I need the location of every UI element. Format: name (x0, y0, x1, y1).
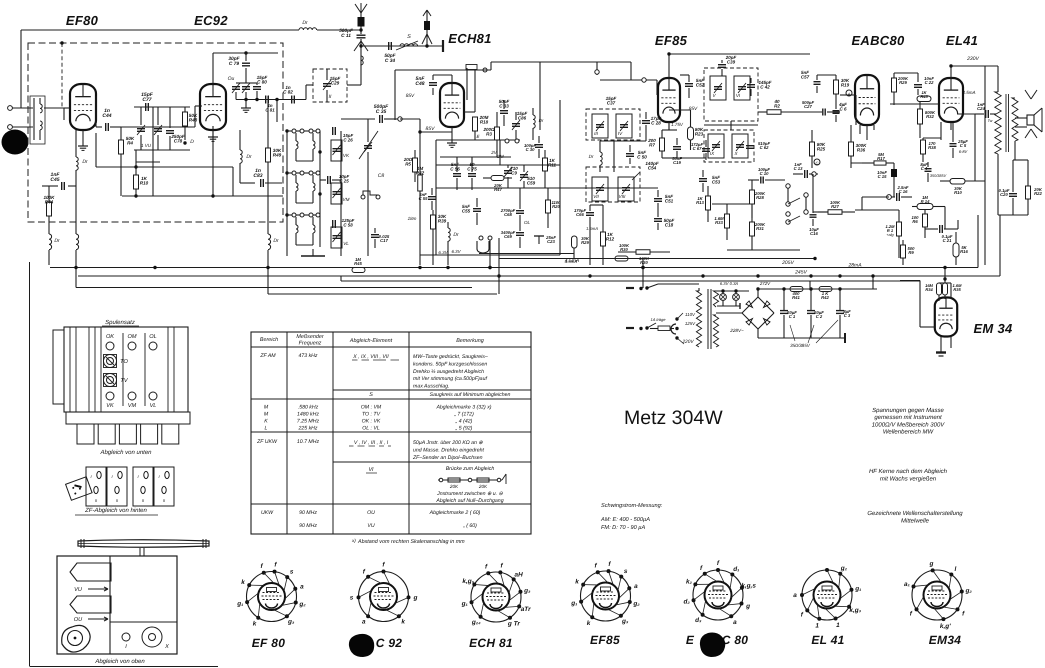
svg-text:C 28: C 28 (651, 121, 661, 126)
svg-text:C54: C54 (648, 166, 657, 171)
resistor R31 (750, 222, 755, 236)
svg-text:f: f (717, 560, 720, 567)
svg-text:IX: IX (710, 151, 715, 156)
trimmer rail bottom (236, 99, 306, 101)
svg-text:Schwingstrom-Messung:: Schwingstrom-Messung: (601, 502, 663, 509)
svg-text:R44: R44 (45, 200, 54, 205)
svg-text:C 25: C 25 (339, 178, 349, 183)
circles row top (106, 342, 114, 350)
svg-text:g₂₄: g₂₄ (471, 619, 481, 626)
svg-text:C51: C51 (665, 199, 674, 204)
trimmer rail (340, 131, 342, 256)
svg-text:R48: R48 (189, 118, 198, 123)
wire y254 (479, 253, 574, 255)
svg-text:R23: R23 (695, 132, 704, 137)
bottom border line (30, 666, 218, 668)
wire EL41 anode (950, 66, 952, 78)
resistor R17a (874, 161, 886, 165)
pinout ECH81 outer circle (471, 572, 521, 622)
svg-text:„ 4 (42): „ 4 (42) (455, 419, 473, 425)
svg-text:Jnstrument zwischen ⊕ u. ⊖: Jnstrument zwischen ⊕ u. ⊖ (436, 491, 503, 497)
svg-text:f: f (382, 562, 385, 569)
svg-text:R42: R42 (821, 295, 829, 300)
resistor R34 oval (937, 283, 942, 295)
trimmer can VK (331, 140, 342, 161)
pin g₃ of EF85 (619, 614, 623, 618)
pin k of EF80 (256, 616, 260, 620)
capacitor C78 (166, 130, 174, 132)
svg-text:R4: R4 (127, 141, 133, 146)
pin k₂ of EABC80 (693, 582, 697, 586)
svg-text:EL41: EL41 (946, 33, 978, 48)
bus vertical c (809, 281, 811, 289)
svg-text:a: a (793, 592, 797, 599)
resistor R16 (953, 243, 959, 257)
svg-text:4.5mA: 4.5mA (962, 90, 975, 95)
resistor R30 (636, 250, 650, 255)
capacitor C2 (810, 289, 812, 310)
svg-text:Abstand vom rechten Skalenan: Abstand vom rechten Skalenanschlag in mm (357, 539, 465, 545)
svg-text:VM: VM (128, 403, 137, 409)
svg-text:E: E (686, 633, 695, 647)
svg-text:R49: R49 (273, 153, 282, 158)
svg-text:MW–Taste gedrückt, Saugkreis–: MW–Taste gedrückt, Saugkreis– (413, 354, 488, 360)
resistor R11 (543, 158, 548, 171)
svg-text:C 80: C 80 (722, 633, 749, 647)
bus vertical a (267, 288, 269, 295)
central rail (319, 131, 321, 247)
capacitor C55 (473, 208, 481, 210)
svg-text:EC92: EC92 (194, 13, 228, 28)
svg-text:R12: R12 (606, 237, 615, 242)
svg-text:a: a (733, 619, 737, 626)
connector end (442, 40, 444, 52)
capacitor C80 (253, 86, 261, 88)
antenna input coil (33, 98, 35, 140)
pinout EL41 inner electrode (814, 582, 841, 609)
pin a of EC92 (366, 614, 370, 618)
heater wires (716, 290, 749, 292)
svg-text:90 MHz: 90 MHz (299, 523, 317, 529)
dashed box C29 (313, 69, 347, 102)
svg-text:f: f (910, 610, 913, 617)
capacitor C35 (341, 118, 375, 120)
svg-text:ZF UKW: ZF UKW (256, 439, 278, 445)
bus line mid (341, 280, 920, 282)
svg-text:aTr: aTr (521, 606, 531, 613)
selector taps (675, 317, 678, 320)
pin k of EF80 (247, 583, 251, 587)
resistor R23 oval (688, 127, 694, 140)
output transformer secondary (1012, 98, 1018, 141)
Spulensatz lower band (66, 412, 190, 424)
svg-text:VU: VU (74, 587, 83, 593)
pinout ECH81 inner electrode (483, 584, 510, 611)
capacitor C24 (985, 110, 987, 118)
svg-text:C59: C59 (527, 181, 536, 186)
resistor R47 oval (491, 176, 504, 181)
svg-text:C 58: C 58 (343, 222, 353, 227)
svg-text:L: L (265, 426, 268, 432)
svg-text:R31: R31 (756, 226, 764, 231)
tube EABC80 (855, 75, 879, 125)
svg-text:g₃: g₃ (621, 618, 629, 625)
pin g₂ of EF85 (628, 600, 632, 604)
svg-text:Abgleich von unten: Abgleich von unten (99, 449, 152, 456)
EC92 anode rail (212, 53, 214, 86)
svg-text:C68: C68 (504, 212, 512, 217)
wire EF85 k net (668, 122, 670, 130)
antenna A2 (426, 10, 428, 46)
svg-text:1480 kHz: 1480 kHz (297, 412, 319, 418)
svg-text:C23: C23 (547, 239, 555, 244)
svg-text:Saugkreis auf Minimum abgleich: Saugkreis auf Minimum abgleichen (430, 392, 511, 398)
pointer VU (70, 563, 111, 581)
anode rail dots (667, 52, 670, 55)
svg-text:C 67: C 67 (693, 146, 703, 151)
pin k,g,s of EABC80 (740, 586, 744, 590)
svg-text:C 5: C 5 (960, 143, 967, 148)
svg-text:1 VU: 1 VU (141, 143, 152, 148)
svg-text:7.25 MHz: 7.25 MHz (297, 419, 320, 425)
capacitor C52 (685, 83, 693, 85)
svg-text:k,g': k,g' (940, 623, 951, 630)
capacitor C57 (814, 81, 821, 83)
svg-text:VL: VL (150, 403, 157, 409)
resistor R4 (120, 127, 122, 140)
pin f of EC92 (366, 575, 370, 579)
dial drum (78, 540, 209, 548)
pin f of ECH81 (486, 571, 490, 575)
coil Dr cathode (75, 130, 77, 157)
capacitor C55b (428, 196, 436, 198)
trimmer mid (242, 86, 250, 88)
terminal A (846, 90, 852, 96)
svg-text:ZF–Sender an Dipol–Buchsen: ZF–Sender an Dipol–Buchsen (412, 455, 483, 461)
svg-text:I: I (158, 474, 160, 479)
wire transformer top (997, 66, 999, 92)
antenna dipole A1 (360, 13, 362, 17)
lamp returns (722, 300, 724, 306)
tuning gang C77 cluster (134, 106, 190, 108)
svg-text:C 79: C 79 (229, 61, 239, 67)
svg-text:EF 80: EF 80 (252, 636, 286, 650)
resistor R32 (918, 109, 923, 124)
resistor R13 (706, 196, 711, 210)
svg-text:C16: C16 (810, 231, 818, 236)
pin s of EC92 (357, 595, 361, 599)
svg-text:VIII: VIII (619, 194, 627, 199)
trimmer can VM (331, 183, 342, 204)
svg-text:C 62: C 62 (760, 145, 770, 150)
svg-text:C 6: C 6 (839, 107, 847, 112)
resistor R25 (810, 142, 815, 156)
knob TV (104, 374, 117, 387)
HV rail 272V (758, 288, 877, 290)
svg-text:220V: 220V (681, 339, 694, 345)
dial stem (139, 548, 141, 556)
resistor R19 (834, 80, 839, 94)
capacitor C3 (839, 289, 841, 310)
svg-text:AM: E: 400 - 500µA: AM: E: 400 - 500µA (600, 517, 650, 523)
svg-text:R25: R25 (817, 147, 826, 152)
svg-text:„ ( 60): „ ( 60) (462, 523, 477, 529)
svg-text:f: f (363, 568, 366, 575)
band switch left rail (286, 130, 288, 256)
svg-text:6.3V 0.3A: 6.3V 0.3A (720, 281, 739, 286)
pin f of EM34 (915, 607, 919, 611)
svg-text:C17: C17 (380, 238, 388, 243)
bridge rectifier (758, 297, 774, 313)
svg-text:Abgleichmarke 2 ( 60): Abgleichmarke 2 ( 60) (429, 510, 481, 516)
resistor R38 (921, 140, 926, 154)
resistor R2 (767, 110, 781, 115)
svg-text:A: A (847, 92, 851, 97)
svg-text:Frequenz: Frequenz (299, 341, 322, 347)
svg-text:f: f (801, 612, 804, 619)
dashed box filter V/VI (704, 68, 758, 121)
capacitor C16e (810, 214, 817, 216)
svg-text:V , IV , III , II , I: V , IV , III , II , I (354, 440, 389, 446)
svg-text:OU: OU (74, 617, 83, 623)
wire ECH81 top rail (394, 70, 396, 120)
capacitor C23 t (534, 235, 544, 237)
pin f of EC92 (382, 570, 386, 574)
svg-text:R45: R45 (354, 261, 362, 266)
svg-text:C 21: C 21 (943, 238, 953, 243)
svg-text:k: k (241, 579, 245, 586)
svg-text:IV: IV (618, 131, 623, 136)
svg-text:VU: VU (367, 523, 374, 529)
svg-text:s: s (624, 568, 628, 575)
resistor R36 (849, 142, 854, 156)
pin s of EF85 (619, 575, 623, 579)
svg-text:kondens. 50pF kurzgeschlossen: kondens. 50pF kurzgeschlossen (413, 361, 487, 367)
capacitor C13 (804, 170, 806, 178)
svg-text:aH: aH (515, 571, 524, 578)
tuning capacitor C8 (364, 145, 372, 147)
pin g₂ of EL41 (838, 572, 842, 576)
capacitor C16b (887, 195, 892, 200)
capacitor C10 (760, 177, 762, 184)
svg-text:f: f (595, 563, 598, 570)
svg-text:Gezeichnete Wellenschalterstel: Gezeichnete Wellenschalterstellung (867, 510, 963, 517)
svg-text:245V: 245V (794, 270, 807, 276)
svg-text:TO: TO (120, 359, 128, 365)
ground ECH81 (451, 127, 453, 143)
pin f of EF80 (262, 571, 266, 575)
svg-text:OM: OM (127, 334, 136, 340)
screen rail EF80 (96, 166, 233, 168)
wire y196 link (122, 195, 283, 197)
switch terms ech (505, 139, 509, 143)
ink blob over EC92 label (349, 634, 374, 657)
svg-text:X: X (733, 151, 738, 156)
dial lamp 1 (720, 294, 727, 301)
svg-text:OM : VM: OM : VM (361, 405, 382, 411)
svg-text:Bemerkung: Bemerkung (456, 338, 484, 344)
resistor R39 (432, 210, 434, 215)
svg-text:125V: 125V (685, 321, 696, 326)
svg-text:R47: R47 (494, 187, 502, 192)
pin k,g₅ of ECH81 (472, 583, 476, 587)
svg-text:ECH 81: ECH 81 (469, 636, 513, 650)
circled C (814, 159, 820, 165)
svg-text:mit Ver stimmung (ca.500pF)a: mit Ver stimmung (ca.500pF)auf (413, 376, 487, 382)
IF can VII (592, 177, 608, 201)
svg-text:Spulensatz: Spulensatz (105, 319, 135, 326)
svg-text:UKW: UKW (261, 510, 274, 516)
cam blob (62, 625, 90, 652)
wire into C29 box (305, 85, 307, 100)
svg-text:225 kHz: 225 kHz (297, 426, 317, 432)
pinout EM34 inner electrode (924, 582, 951, 609)
svg-text:II: II (163, 498, 166, 503)
switch bracket (361, 195, 365, 199)
node antenna junction (359, 44, 362, 47)
dashed box filter III/IV (586, 109, 640, 140)
hole X (142, 627, 162, 647)
resistor R29b (892, 78, 897, 92)
svg-text:f: f (261, 563, 264, 570)
wires EABC mesh (704, 124, 758, 126)
pin 1 of EL41 (834, 616, 838, 620)
pinout EABC80 outer circle (693, 570, 743, 620)
svg-text:+alg: +alg (886, 233, 894, 237)
svg-text:C 13: C 13 (794, 166, 804, 171)
svg-text:350/385V: 350/385V (930, 174, 947, 178)
wire EL41 screen (890, 103, 939, 105)
svg-text:I: I (111, 474, 113, 479)
svg-text:S: S (407, 34, 411, 40)
svg-text:VK: VK (343, 153, 350, 158)
svg-text:d₂: d₂ (684, 599, 691, 606)
IF can VIII (618, 177, 634, 201)
svg-text:R30: R30 (620, 247, 628, 252)
svg-text:4.5mA: 4.5mA (565, 259, 578, 264)
resistor R6 (923, 214, 928, 227)
pin f of EM34 (955, 607, 959, 611)
svg-text:und Masse. Drehko eingedreh: und Masse. Drehko eingedreht (413, 447, 484, 453)
pin of EL41 (825, 568, 829, 572)
pin g₂ of EF80 (294, 601, 298, 605)
svg-text:EABC80: EABC80 (851, 33, 905, 48)
svg-text:EM 34: EM 34 (973, 321, 1013, 336)
pinout EM34 outer circle (912, 570, 962, 620)
svg-text:1.75V: 1.75V (671, 122, 684, 127)
svg-text:k: k (253, 621, 257, 628)
svg-text:205V: 205V (781, 260, 794, 266)
wire y140 (436, 139, 520, 141)
svg-text:C55: C55 (462, 209, 471, 214)
pin a of EL41 (800, 593, 804, 597)
svg-text:OL : VL: OL : VL (362, 426, 380, 432)
capacitor C4 (925, 168, 932, 170)
svg-text:OU: OU (367, 510, 375, 516)
resistor R18 (473, 117, 478, 131)
rail y258 (499, 258, 815, 260)
transformer core (707, 289, 709, 349)
svg-text:6.3V: 6.3V (451, 249, 461, 254)
svg-text:gemessen mit Instrument: gemessen mit Instrument (874, 414, 942, 421)
svg-text:OL: OL (524, 220, 531, 225)
IF can V (710, 76, 726, 100)
svg-text:6-8V: 6-8V (959, 149, 968, 154)
hole I (122, 633, 130, 641)
svg-text:85V: 85V (426, 126, 436, 132)
svg-text:I: I (137, 474, 139, 479)
capacitor C82 (291, 96, 293, 104)
svg-text:228V~: 228V~ (729, 328, 744, 333)
dashed box filter VII/VIII (586, 167, 640, 202)
wire EF85 down (668, 122, 670, 130)
svg-text:C 22: C 22 (925, 80, 935, 85)
pin k of EC92 (397, 614, 401, 618)
svg-text:EF85: EF85 (655, 33, 688, 48)
wire mixer mid (436, 164, 560, 166)
pin d₂ of EABC80 (692, 598, 696, 602)
pin f of EL41 (805, 608, 809, 612)
ground EF80 cathode (82, 130, 84, 146)
svg-text:C77: C77 (142, 97, 151, 103)
svg-text:k: k (587, 620, 591, 627)
table horizontals (251, 346, 531, 348)
svg-text:28mA: 28mA (847, 263, 862, 269)
svg-text:II: II (116, 498, 119, 503)
ground EC92 cathode (212, 126, 214, 137)
svg-text:mit Wachs vergießen: mit Wachs vergießen (880, 476, 937, 483)
svg-text:g: g (413, 595, 418, 602)
table frame (251, 332, 531, 534)
output transformer primary (995, 92, 1001, 154)
svg-text:Dr: Dr (539, 118, 544, 123)
wire EF85 anode (668, 54, 670, 78)
svg-text:1: 1 (815, 622, 819, 629)
svg-text:272V: 272V (759, 281, 771, 286)
pinout EF85 inner electrode (592, 583, 619, 610)
svg-text:Dr: Dr (302, 20, 308, 26)
pin g₂ of EM34 (960, 590, 964, 594)
tube EC92 (triode) (200, 84, 226, 130)
EC92 cathode net (212, 130, 214, 196)
svg-text:EL 41: EL 41 (811, 633, 844, 647)
left border line (29, 262, 31, 667)
dial lamp 2 (733, 294, 740, 301)
svg-text:C 15: C 15 (878, 174, 888, 179)
wire EM34 feed (944, 268, 946, 284)
svg-text:k,g,s: k,g,s (741, 583, 756, 590)
svg-text:VI: VI (368, 467, 374, 473)
pin g₁ of EL41 (849, 588, 853, 592)
svg-text:g₁: g₁ (570, 600, 577, 607)
capacitor C75 (468, 173, 476, 175)
plug jack (671, 324, 676, 334)
Abgleich oben box (57, 556, 177, 654)
svg-text:R39: R39 (438, 219, 447, 224)
capacitor C28 (642, 120, 650, 122)
pin k,g' of EM34 (941, 617, 945, 621)
svg-text:110V: 110V (685, 312, 696, 317)
resistor R14 (917, 204, 933, 210)
svg-text:20K: 20K (449, 484, 459, 489)
primary top wire (698, 288, 700, 291)
Spulensatz verticals (69, 327, 71, 412)
svg-text:C19: C19 (673, 160, 681, 165)
capacitor C34 (388, 42, 390, 50)
resistor R42m (419, 132, 421, 175)
pin f of EF85 (607, 569, 611, 573)
svg-text:g: g (928, 560, 933, 567)
